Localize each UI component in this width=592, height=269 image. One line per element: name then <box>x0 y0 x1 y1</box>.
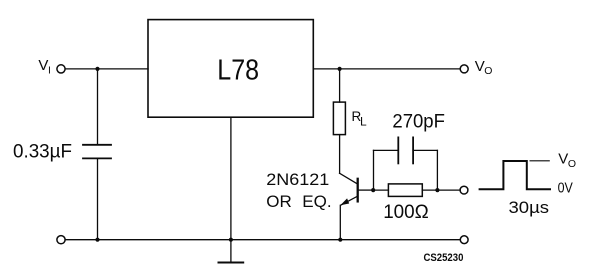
svg-text:L: L <box>360 115 367 129</box>
wire base junction to 100ohm <box>373 189 388 191</box>
wire input to L78 <box>65 68 148 70</box>
svg-text:O: O <box>484 65 492 77</box>
node input junction <box>95 67 99 71</box>
svg-text:OR: OR <box>266 192 292 211</box>
node output junction <box>338 67 342 71</box>
svg-text:30µs: 30µs <box>509 198 550 217</box>
wire right node to mid terminal <box>437 189 460 191</box>
wire base junction riser left <box>373 150 375 190</box>
wire ground rail <box>65 239 460 241</box>
svg-text:2N6121: 2N6121 <box>266 170 329 189</box>
resistor RL body <box>333 102 345 135</box>
svg-text:V: V <box>38 57 48 74</box>
waveform pulse <box>480 161 550 189</box>
svg-text:V: V <box>475 58 485 75</box>
waveform VO level reference line <box>530 160 550 162</box>
svg-text:CS25230: CS25230 <box>424 252 464 264</box>
capacitor C1 0.33uF plates <box>83 144 111 146</box>
node right junction <box>435 188 439 192</box>
node base junction B <box>371 188 375 192</box>
transistor Q1 base lead <box>359 189 373 191</box>
svg-text:I: I <box>48 65 51 77</box>
wire cap top right <box>413 149 437 151</box>
svg-text:100Ω: 100Ω <box>383 202 429 223</box>
capacitor C2 270pF plates <box>397 137 399 163</box>
wire capacitor to ground rail <box>97 158 99 239</box>
svg-text:0V: 0V <box>558 181 573 197</box>
svg-text:270pF: 270pF <box>392 112 445 133</box>
wire RL to collector <box>339 135 341 174</box>
svg-text:L78: L78 <box>217 54 259 86</box>
transistor Q1 emitter arrowhead <box>340 198 349 205</box>
node rail capacitor junction <box>95 238 99 242</box>
node rail ground junction <box>229 238 233 242</box>
wire junction down to capacitor <box>97 69 99 145</box>
svg-text:V: V <box>558 151 568 168</box>
svg-text:O: O <box>568 158 576 170</box>
wire L78 ground pin down <box>230 117 232 240</box>
wire emitter to ground rail <box>339 205 341 239</box>
transistor Q1 collector diagonal <box>340 173 358 184</box>
terminal bottom right <box>460 236 468 244</box>
wire cap top left <box>374 149 399 151</box>
transistor Q1 base bar <box>357 179 359 202</box>
terminal mid output <box>460 186 468 194</box>
ground stem <box>230 240 232 263</box>
terminal bottom left <box>57 236 65 244</box>
ground bar <box>219 262 244 264</box>
wire right riser <box>436 150 438 190</box>
resistor R2 100ohm body <box>388 184 422 197</box>
regulator U1 L78 box <box>148 20 313 118</box>
wire junction down to RL <box>339 69 341 102</box>
terminal output VO <box>460 65 468 73</box>
node emitter on rail <box>338 238 342 242</box>
svg-text:EQ.: EQ. <box>302 192 331 211</box>
svg-text:0.33µF: 0.33µF <box>13 142 72 163</box>
wire 100ohm to right node <box>422 189 437 191</box>
wire output L78 to VO terminal <box>313 68 460 70</box>
terminal input VI <box>57 65 65 73</box>
transistor Q1 emitter diagonal <box>341 196 358 205</box>
